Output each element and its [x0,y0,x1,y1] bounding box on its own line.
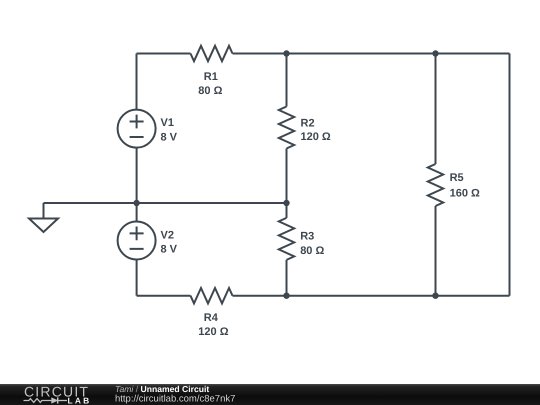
CircuitLab logo: resistor zigzag and diode [24,397,68,403]
wire: bottom rail left segment [137,295,191,297]
svg-text:R4: R4 [204,312,219,324]
svg-text:80 Ω: 80 Ω [198,85,222,97]
svg-text:120 Ω: 120 Ω [301,131,331,143]
resistor R4 [191,288,233,303]
wire: bottom rail right segment [233,295,510,297]
resistor R1 [191,46,233,61]
svg-text:160 Ω: 160 Ω [450,187,480,199]
wire: R5 branch bottom [435,206,437,296]
junction: ground rail / R2-R3 [283,200,289,206]
junction: bottom rail / R3 branch [283,293,289,299]
voltage source V2 [118,222,156,260]
wire: middle branch top [286,54,288,107]
wire: top rail right segment [233,53,510,55]
wire: V2 bottom to bottom rail [136,260,138,296]
wire: ground rail to V2 [136,203,138,222]
wire: middle branch between R2 and R3 [286,149,288,218]
svg-text:R2: R2 [301,118,315,130]
svg-text:V2: V2 [161,230,174,242]
wire: right edge [509,54,511,296]
svg-text:V1: V1 [161,117,174,129]
junction: ground rail / V1-V2 [133,200,139,206]
svg-text:LAB: LAB [68,396,92,405]
resistor R5 [428,164,443,206]
junction: top rail / R5 branch [432,50,438,56]
svg-text:R1: R1 [204,71,218,83]
svg-text:120 Ω: 120 Ω [198,326,228,338]
wire: left branch down to V1 [136,54,138,110]
svg-text:R3: R3 [300,230,314,242]
wire: V1 bottom to ground rail [136,148,138,203]
wire: R5 branch top [435,54,437,165]
wire: top rail left segment [137,53,191,55]
voltage source V1 [118,110,156,148]
resistor R3 [279,218,294,260]
resistor R2 [279,107,294,149]
wire: middle branch bottom [286,260,288,296]
wire: ground rail [44,202,287,204]
svg-text:R5: R5 [450,172,464,184]
svg-text:80 Ω: 80 Ω [300,245,324,257]
svg-text:8 V: 8 V [161,244,178,256]
ground [29,203,58,232]
svg-text:http://circuitlab.com/c8e7nk7: http://circuitlab.com/c8e7nk7 [115,393,235,404]
junction: bottom rail / R5 branch [432,293,438,299]
junction: top rail / R2 branch [283,50,289,56]
svg-text:8 V: 8 V [161,132,178,144]
